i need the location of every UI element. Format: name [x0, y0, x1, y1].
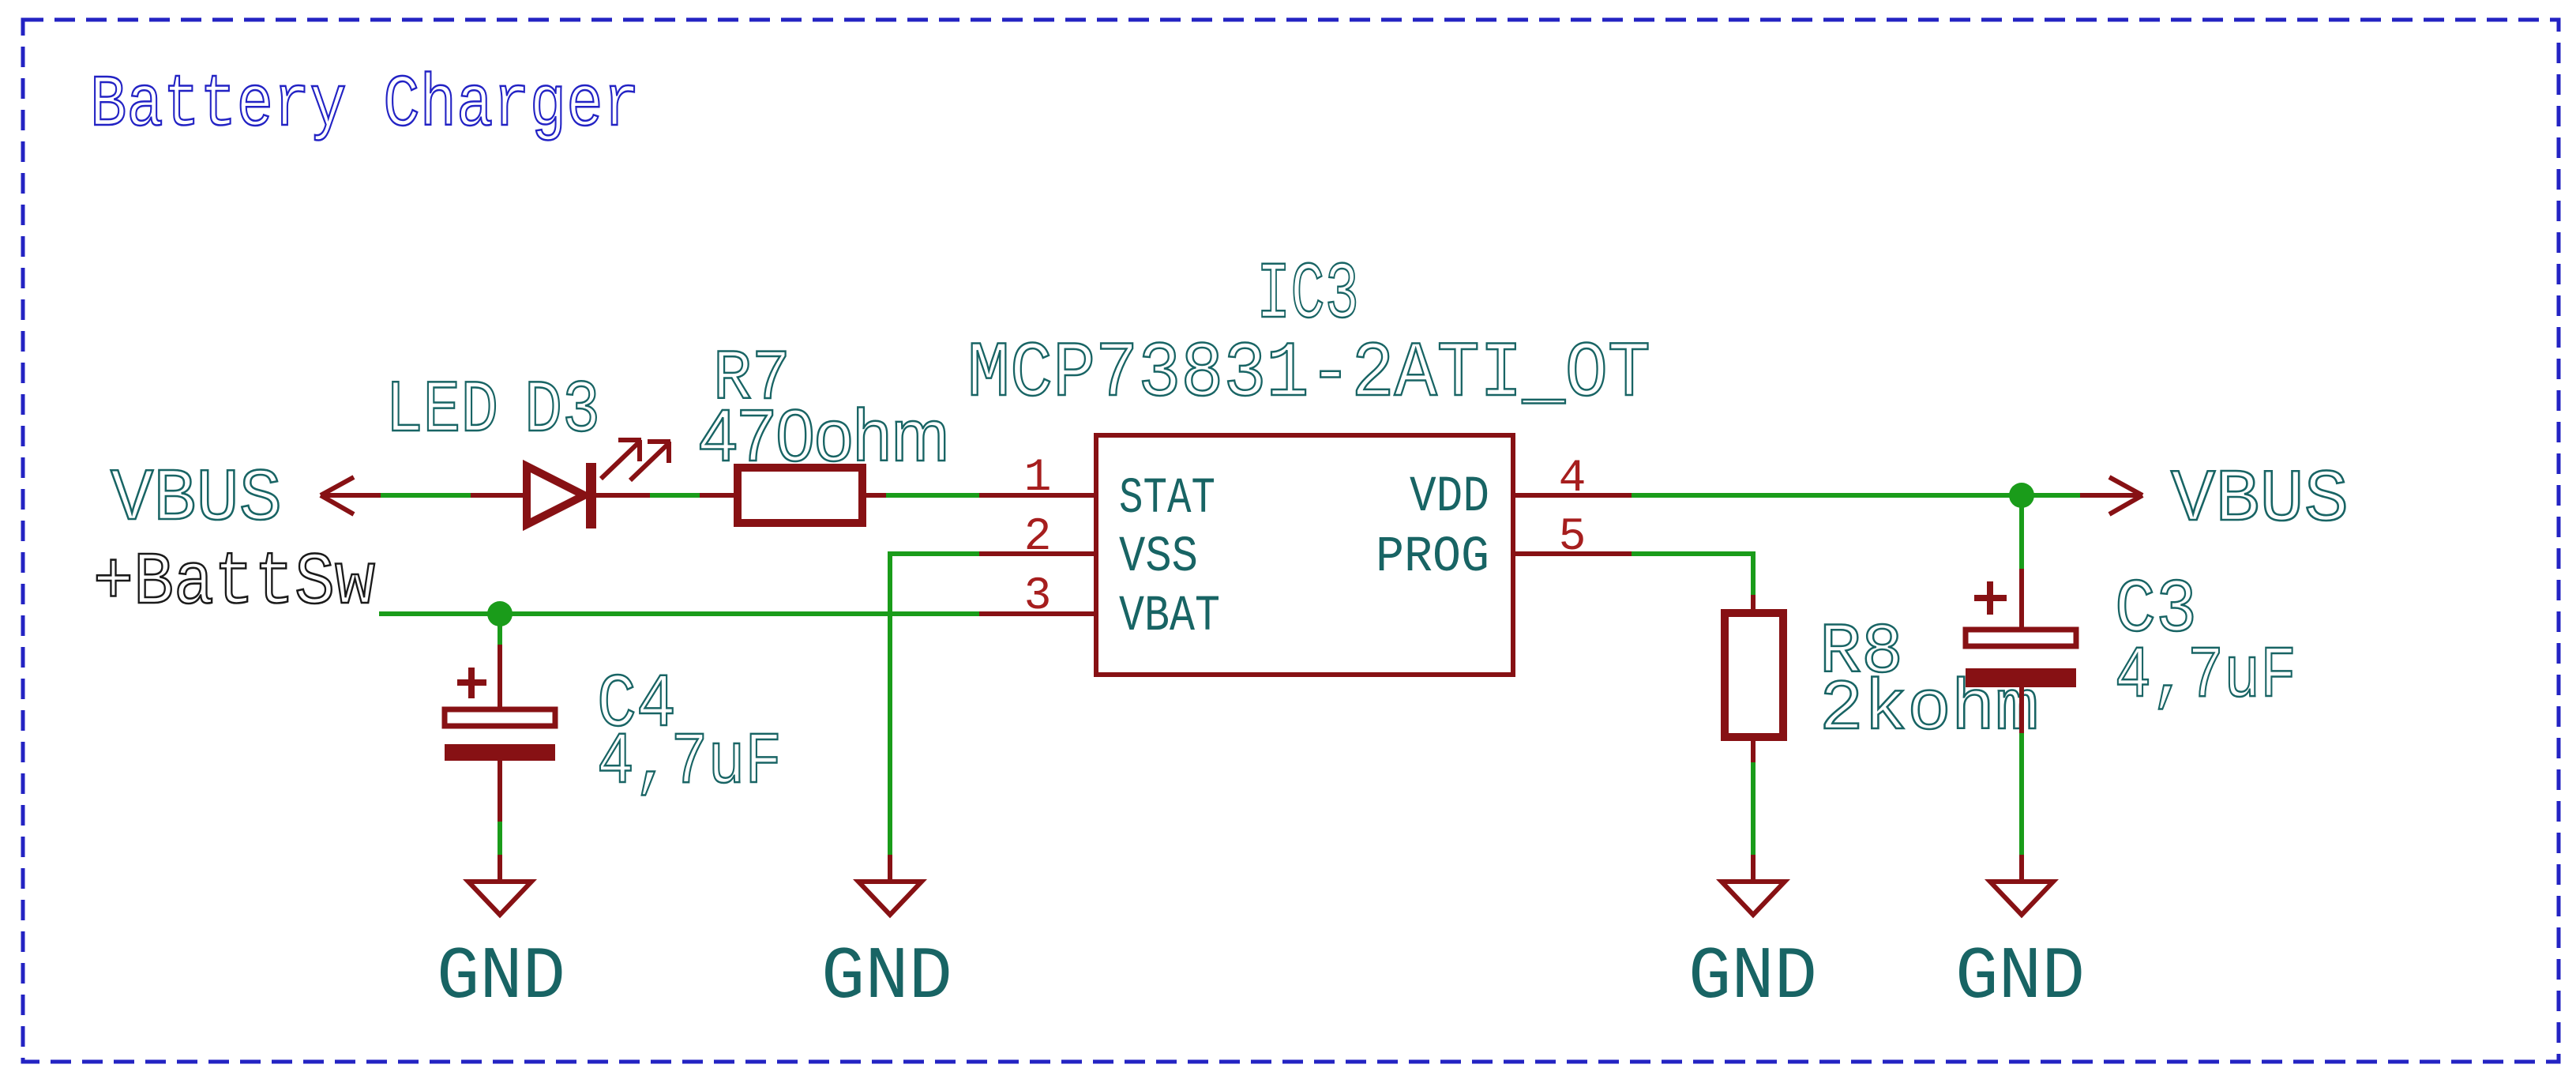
svg-text:IC3: IC3: [1256, 250, 1359, 341]
wire C4 to GND: [498, 822, 502, 855]
svg-text:GND: GND: [821, 936, 952, 1020]
svg-text:VSS: VSS: [1119, 529, 1198, 586]
svg-text:PROG: PROG: [1376, 529, 1489, 586]
pin 2 VSS: [979, 512, 1198, 586]
svg-text:LED: LED: [385, 370, 498, 453]
svg-text:GND: GND: [437, 936, 565, 1020]
svg-text:STAT: STAT: [1119, 471, 1215, 528]
svg-text:GND: GND: [1955, 936, 2085, 1020]
global label VBUS (right): [2080, 459, 2349, 543]
capacitor C4: [445, 614, 555, 822]
ground symbol GND (below C3): [1955, 855, 2085, 1020]
svg-text:4,7uF: 4,7uF: [2115, 635, 2296, 718]
wire IC3 pin 4 VDD to VBUS-right: [1632, 493, 2080, 498]
pin 1 STAT: [979, 453, 1215, 528]
svg-text:Battery Charger: Battery Charger: [90, 64, 640, 147]
svg-text:VDD: VDD: [1410, 469, 1489, 526]
svg-text:1: 1: [1024, 453, 1052, 504]
capacitor C3: [1966, 495, 2076, 733]
resistor R8: [1725, 595, 1783, 762]
junction node at C4 tap: [487, 601, 513, 626]
svg-text:MCP73831-2ATI_OT: MCP73831-2ATI_OT: [967, 330, 1650, 419]
wire C3 to GND: [2019, 733, 2024, 855]
sheet title "Battery Charger": [90, 64, 640, 147]
pin 4 VDD: [1410, 453, 1632, 526]
svg-text:470ohm: 470ohm: [699, 394, 949, 476]
ground symbol GND (below C4): [437, 855, 565, 1020]
ground symbol GND (below VSS wire): [821, 855, 952, 1020]
svg-text:5: 5: [1559, 512, 1587, 563]
svg-text:4: 4: [1559, 453, 1587, 505]
wire VBUS-left to LED anode: [381, 493, 471, 498]
op-amp / IC U: IC3 MCP73831 body: [1096, 435, 1513, 675]
svg-text:VBUS: VBUS: [111, 458, 282, 542]
svg-text:3: 3: [1024, 571, 1052, 622]
svg-text:GND: GND: [1688, 936, 1817, 1020]
wire IC3 pin 2 VSS down to GND: [890, 554, 979, 855]
wire +BattSw to IC3 pin 3 (VBAT rail): [379, 611, 979, 616]
wire IC3 pin 5 PROG to R8: [1632, 554, 1753, 595]
ground symbol GND (below R8): [1688, 855, 1817, 1020]
pin 5 PROG: [1376, 512, 1632, 586]
pin 3 VBAT: [979, 571, 1220, 645]
svg-text:4,7uF: 4,7uF: [597, 721, 782, 804]
svg-text:VBAT: VBAT: [1119, 589, 1220, 645]
wire R8 to GND: [1751, 762, 1756, 855]
svg-text:VBUS: VBUS: [2171, 459, 2349, 543]
LED D3: [471, 440, 670, 528]
svg-text:D3: D3: [524, 370, 600, 453]
svg-text:2: 2: [1024, 512, 1052, 563]
resistor R7: [700, 468, 886, 523]
wire R7 to IC3 pin 1: [886, 493, 979, 498]
wire LED cathode to R7: [650, 493, 700, 498]
svg-text:+BattSw: +BattSw: [93, 542, 375, 626]
global label VBUS (left): [111, 458, 381, 542]
junction node at C3 tap: [2009, 483, 2034, 508]
